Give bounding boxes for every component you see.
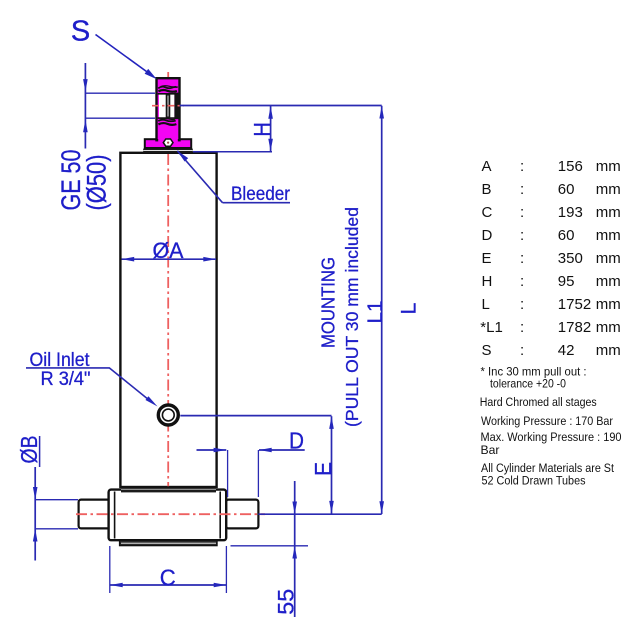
column-flange junction patch (158, 137, 178, 141)
svg-text:52 Cold Drawn Tubes: 52 Cold Drawn Tubes (482, 474, 586, 488)
svg-text:60: 60 (558, 181, 575, 198)
dimension E (331, 416, 333, 513)
eye window bottom frame line (158, 117, 179, 119)
svg-text:mm: mm (596, 181, 621, 198)
bleeder underline (223, 202, 291, 204)
dimension ØA (122, 258, 217, 260)
block right end face line (219, 492, 221, 539)
svg-text::: : (520, 319, 524, 336)
red centerline in eye window (152, 105, 184, 107)
svg-text:60: 60 (558, 227, 575, 244)
right trunnion pin (226, 500, 258, 529)
svg-text:Max. Working Pressure : 190: Max. Working Pressure : 190 (481, 430, 622, 444)
svg-text::: : (520, 158, 524, 175)
svg-text:ØA: ØA (153, 238, 184, 263)
pin axis line to L1 (258, 513, 381, 515)
svg-text:C: C (160, 564, 176, 590)
svg-text:MOUNTING: MOUNTING (319, 257, 339, 348)
S extension line top (85, 92, 155, 94)
svg-text:156: 156 (558, 158, 583, 175)
oil inlet port circles (158, 405, 178, 425)
svg-text::: : (520, 342, 524, 359)
bottom trunnion block (109, 490, 227, 541)
55 extension line (231, 545, 309, 547)
washer strip under flange (143, 149, 193, 153)
weld band cylinder-to-block (121, 486, 216, 488)
svg-text:*L1: *L1 (480, 319, 503, 336)
svg-text:193: 193 (558, 204, 583, 221)
S extension line bottom (85, 117, 155, 119)
svg-text:D: D (482, 227, 493, 244)
dimension D (197, 449, 227, 451)
oil inlet underline (26, 367, 109, 369)
svg-text:350: 350 (558, 250, 583, 267)
leader S (96, 35, 153, 76)
lower thread squiggles (158, 120, 176, 122)
svg-text::: : (520, 227, 524, 244)
svg-text:R 3/4": R 3/4" (41, 369, 91, 390)
svg-text:E: E (310, 462, 336, 476)
svg-text:mm: mm (596, 227, 621, 244)
svg-text:mm: mm (596, 158, 621, 175)
svg-text::: : (520, 250, 524, 267)
dimension ØB (34, 467, 36, 561)
svg-text:H: H (482, 273, 493, 290)
svg-text:L: L (397, 302, 421, 314)
eye center rod (166, 93, 171, 119)
svg-text:H: H (249, 122, 275, 137)
oil inlet leader (109, 368, 151, 402)
dimension H (270, 106, 272, 151)
svg-text::: : (520, 204, 524, 221)
ØB underline (39, 436, 41, 467)
svg-text:Working Pressure : 170 Bar: Working Pressure : 170 Bar (481, 414, 613, 428)
bleeder leader (177, 151, 222, 203)
svg-text::: : (520, 181, 524, 198)
svg-text:Hard Chromed all stages: Hard Chromed all stages (480, 395, 597, 409)
svg-text:C: C (482, 204, 493, 221)
oil axis line to E (180, 415, 331, 417)
dimension 55 (294, 481, 296, 617)
svg-text:mm: mm (596, 273, 621, 290)
svg-text::: : (520, 296, 524, 313)
left trunnion pin (79, 500, 110, 529)
svg-text:A: A (482, 158, 492, 175)
bleeder hex bolt (163, 139, 173, 146)
svg-text:D: D (289, 428, 304, 454)
svg-text:L1: L1 (363, 301, 387, 324)
svg-text:E: E (482, 250, 492, 267)
eye axis line to L1 (180, 105, 382, 107)
svg-text:S: S (482, 342, 492, 359)
dimension L1/L vertical line (381, 106, 383, 514)
C extension lines (109, 546, 111, 593)
svg-text:55: 55 (274, 589, 299, 615)
mounting eye column (157, 78, 180, 140)
H lower extension line (193, 151, 272, 153)
svg-text:Bleeder: Bleeder (231, 184, 291, 205)
svg-text:tolerance +20 -0: tolerance +20 -0 (490, 377, 566, 391)
svg-text:(PULL OUT 30 mm included: (PULL OUT 30 mm included (342, 207, 362, 427)
svg-text:95: 95 (558, 273, 575, 290)
svg-text:1752: 1752 (558, 296, 591, 313)
svg-text:mm: mm (596, 250, 621, 267)
svg-text:(Ø50): (Ø50) (82, 155, 112, 211)
svg-text::: : (520, 273, 524, 290)
svg-text:S: S (71, 16, 91, 48)
svg-text:Bar: Bar (481, 443, 500, 457)
red horizontal centerline (pin axis) (76, 513, 265, 515)
D extension lines (227, 450, 229, 497)
svg-text:42: 42 (558, 342, 575, 359)
eye window (159, 94, 175, 118)
dimension C (110, 584, 226, 586)
dimension S vertical line (84, 63, 86, 149)
red vertical centerline (167, 72, 169, 546)
svg-text:mm: mm (596, 319, 621, 336)
cylinder body outer tube (120, 153, 216, 487)
svg-text:mm: mm (596, 342, 621, 359)
svg-text:mm: mm (596, 204, 621, 221)
svg-text:mm: mm (596, 296, 621, 313)
mounting eye GE50 flange (145, 139, 191, 148)
eye window right frame (174, 93, 179, 120)
svg-text:ØB: ØB (16, 436, 42, 464)
svg-text:B: B (482, 181, 492, 198)
svg-text:1782: 1782 (558, 319, 591, 336)
bottom plate under block (120, 540, 217, 545)
block left end face line (114, 492, 116, 539)
svg-text:L: L (482, 296, 490, 313)
ØB extension lines (35, 499, 78, 501)
eye window top frame line (158, 93, 179, 95)
upper thread squiggles (158, 87, 178, 89)
